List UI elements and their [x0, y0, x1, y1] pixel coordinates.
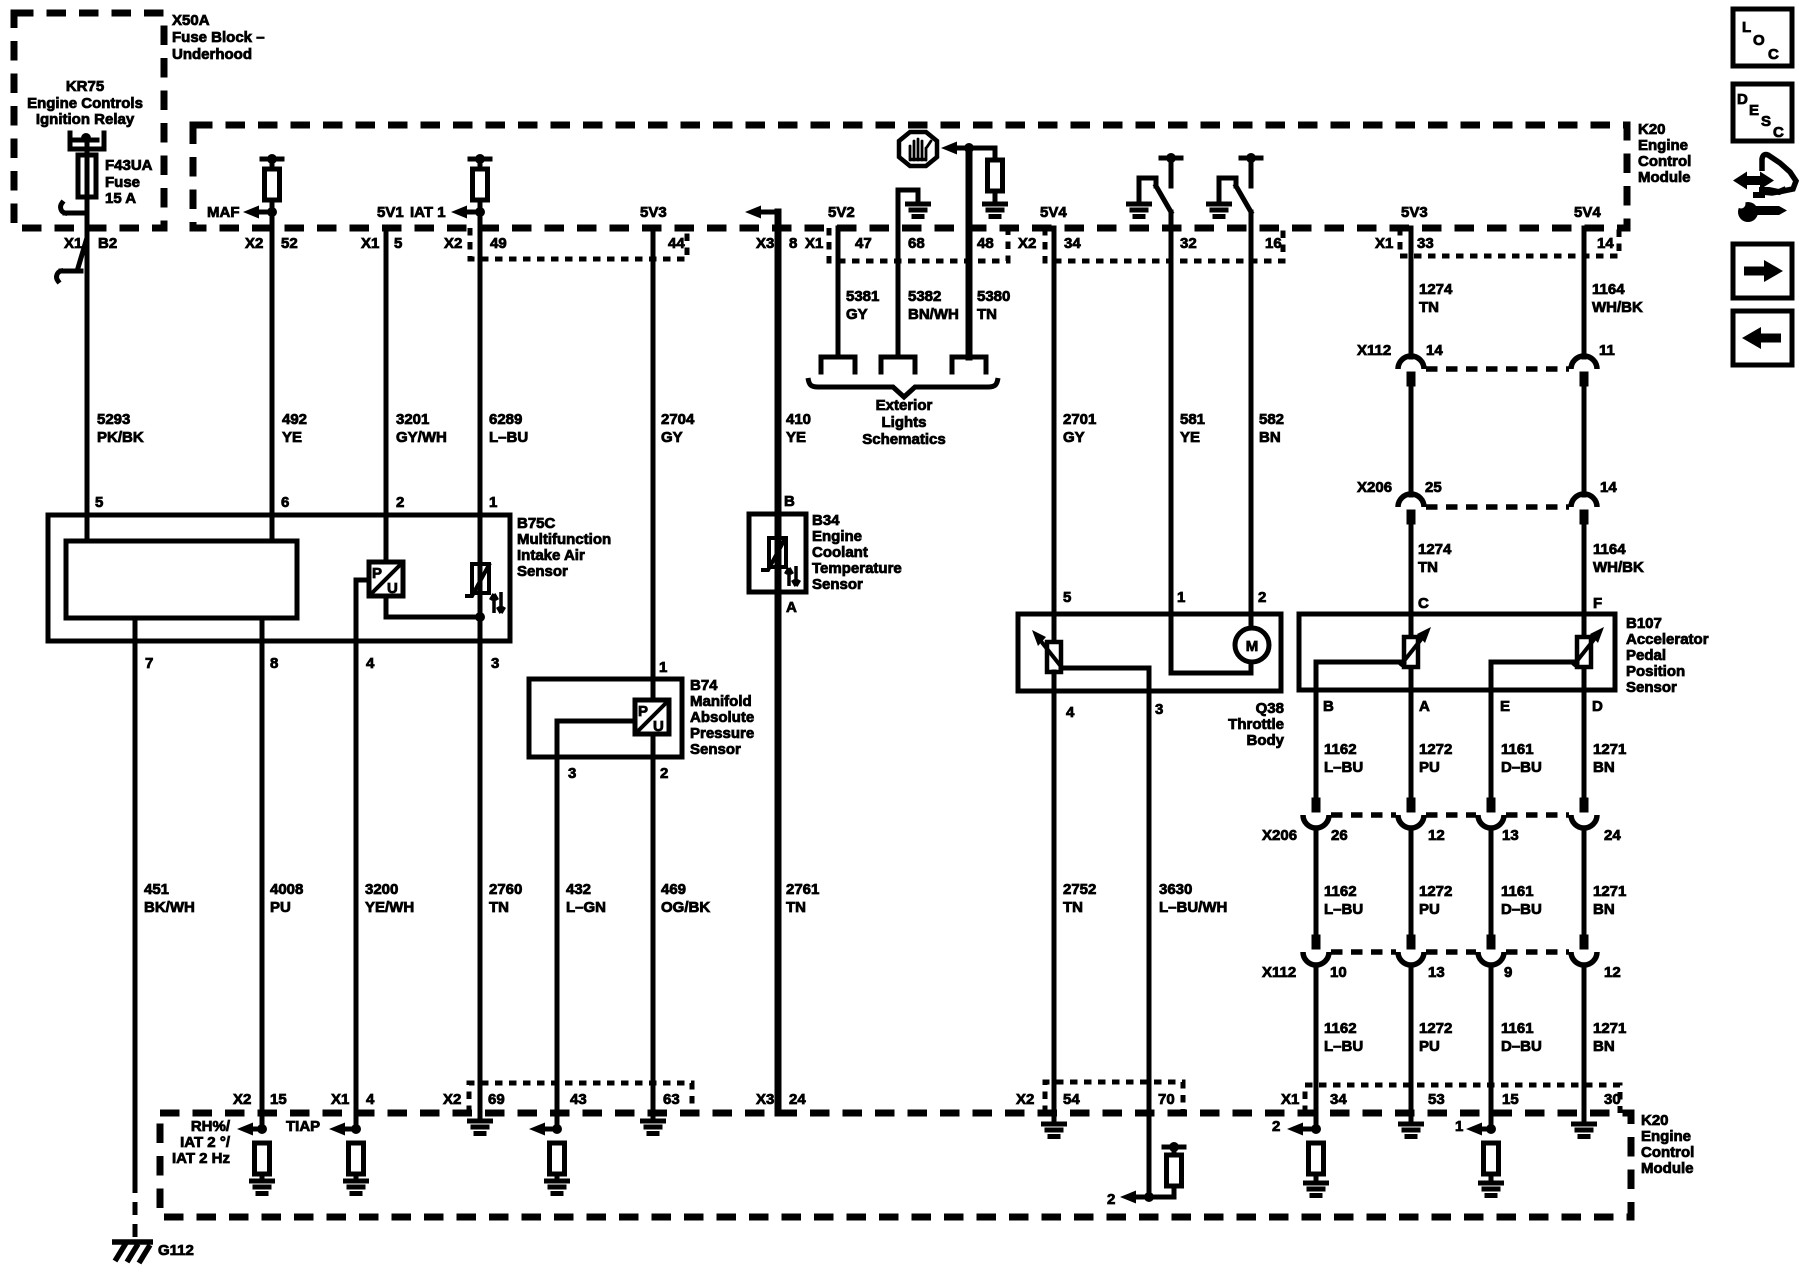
terminal label X3 24 bottom: [756, 1091, 806, 1108]
ECM ground wire 1272: [1401, 1124, 1422, 1137]
svg-text:24: 24: [1604, 827, 1621, 844]
svg-text:4: 4: [366, 655, 375, 672]
svg-text:X2: X2: [444, 235, 462, 252]
svg-text:Module: Module: [1641, 1160, 1694, 1177]
ECM ground wire 1271: [1574, 1124, 1595, 1137]
dotted connector box pins 54-70: [1045, 1082, 1183, 1113]
svg-text:1: 1: [489, 494, 497, 511]
exterior lights connector bracket 68: [881, 357, 915, 372]
connector X112 pin 10: [1303, 935, 1329, 966]
ECM ground wire 2760: [470, 1121, 491, 1134]
svg-text:Body: Body: [1247, 732, 1285, 749]
svg-text:X206: X206: [1262, 827, 1297, 844]
svg-text:1: 1: [1455, 1118, 1463, 1135]
svg-text:5V4: 5V4: [1574, 204, 1601, 221]
label X206 25 14: [1357, 479, 1617, 496]
svg-text:1161: 1161: [1501, 741, 1534, 758]
svg-text:TIAP: TIAP: [286, 1118, 320, 1135]
pullup resistor on IAT 1 signal: [470, 154, 490, 212]
svg-text:L–BU: L–BU: [1324, 759, 1363, 776]
svg-text:Sensor: Sensor: [517, 563, 568, 580]
svg-text:WH/BK: WH/BK: [1592, 299, 1643, 316]
svg-text:GY: GY: [1063, 429, 1085, 446]
svg-text:Control: Control: [1641, 1144, 1694, 1161]
switch to ground on wire 582: [1209, 153, 1262, 217]
svg-text:YE/WH: YE/WH: [365, 899, 414, 916]
wire label 1162 L-BU row1: [1324, 741, 1363, 776]
svg-text:X112: X112: [1357, 342, 1391, 359]
wire label 5293 PK/BK: [97, 411, 144, 446]
wire 1164 WH/BK pin 14 to B107 pin F: [1582, 228, 1587, 614]
terminal label X2 52: [245, 235, 298, 252]
svg-text:Temperature: Temperature: [812, 560, 902, 577]
ECM load resistor wire 1162: [1306, 1143, 1327, 1196]
svg-text:48: 48: [977, 235, 994, 252]
wire label 3201 GY/WH: [396, 411, 447, 446]
svg-text:Multifunction: Multifunction: [517, 531, 611, 548]
svg-text:X1: X1: [1375, 235, 1393, 252]
svg-text:3: 3: [568, 765, 576, 782]
svg-text:X50A: X50A: [172, 12, 210, 29]
ECM K20 bottom box: [160, 1112, 1694, 1217]
svg-text:53: 53: [1428, 1091, 1445, 1108]
svg-text:2752: 2752: [1063, 881, 1096, 898]
svg-text:L–GN: L–GN: [566, 899, 606, 916]
wire label 1271 BN row2: [1593, 883, 1626, 918]
wire 410 YE pin 8 to B34 pin B: [775, 212, 782, 514]
relay KR75 contact: [70, 133, 104, 149]
svg-text:IAT 1: IAT 1: [410, 204, 446, 221]
svg-text:M: M: [1246, 638, 1259, 655]
dotted connector box pins 34-53-15-30: [1305, 1085, 1620, 1113]
wire 582 BN pin 16 to Q38 pin 2 motor: [1249, 212, 1254, 628]
svg-text:B: B: [784, 493, 795, 510]
ECM load resistor wire 432: [547, 1143, 568, 1194]
dotted connector box pins 34-32-16: [1045, 228, 1283, 261]
svg-text:16: 16: [1265, 235, 1282, 252]
wire label 3630 L-BU/WH: [1159, 881, 1227, 916]
svg-text:43: 43: [570, 1091, 587, 1108]
svg-text:3: 3: [1155, 701, 1163, 718]
wire label 1271 BN row3: [1593, 1020, 1626, 1055]
wire 1271 BN from B107 pin D: [1582, 690, 1587, 1121]
svg-text:1272: 1272: [1419, 883, 1452, 900]
svg-text:4008: 4008: [270, 881, 303, 898]
svg-text:PU: PU: [1419, 901, 1440, 918]
connector X112 row link dashed: [1331, 949, 1569, 955]
svg-text:44: 44: [668, 235, 685, 252]
svg-text:Schematics: Schematics: [862, 431, 945, 448]
wire 2761 TN from B34 pin A: [775, 592, 782, 1113]
sensor B107 box: [1299, 614, 1709, 696]
B75C IAT thermistor: [465, 515, 490, 622]
svg-text:K20: K20: [1641, 1112, 1669, 1129]
svg-text:G112: G112: [158, 1242, 194, 1259]
svg-text:YE: YE: [282, 429, 302, 446]
svg-text:Lights: Lights: [882, 414, 927, 431]
svg-text:5V3: 5V3: [1401, 204, 1428, 221]
svg-text:12: 12: [1604, 964, 1621, 981]
svg-text:GY: GY: [661, 429, 683, 446]
svg-text:5293: 5293: [97, 411, 130, 428]
wire 432 L-GN from B74 pin 3: [555, 721, 560, 1129]
svg-text:6: 6: [281, 494, 289, 511]
svg-text:Pedal: Pedal: [1626, 647, 1666, 664]
wire label 2761 TN: [786, 881, 819, 916]
svg-text:Manifold: Manifold: [690, 693, 752, 710]
B107 APP sensor 1 potentiometer: [1316, 614, 1431, 690]
terminal label X2 34: [1018, 235, 1081, 252]
svg-text:GY: GY: [846, 306, 868, 323]
sensor B75C box: [48, 515, 611, 641]
svg-text:L–BU: L–BU: [489, 429, 528, 446]
svg-text:4: 4: [366, 1091, 375, 1108]
svg-text:5V2: 5V2: [828, 204, 855, 221]
dotted connector box pins 49-44: [470, 228, 687, 259]
wire 1272 PU from B107 pin A: [1409, 690, 1414, 1121]
connector X206 pin 14: [1571, 494, 1597, 525]
svg-text:1272: 1272: [1419, 1020, 1452, 1037]
svg-text:Fuse Block –: Fuse Block –: [172, 29, 265, 46]
svg-text:3201: 3201: [396, 411, 429, 428]
svg-text:X1: X1: [1281, 1091, 1299, 1108]
wire label 432 L-GN: [566, 881, 606, 916]
B34 thermistor arrows: [786, 566, 800, 586]
arrow RH% to wire 4008: [237, 1123, 267, 1136]
svg-text:D: D: [1592, 698, 1603, 715]
svg-text:11: 11: [1599, 342, 1615, 359]
svg-text:410: 410: [786, 411, 811, 428]
svg-text:1162: 1162: [1324, 883, 1357, 900]
svg-text:TN: TN: [1418, 559, 1438, 576]
svg-text:5: 5: [95, 494, 103, 511]
arrow 2 on wire 3630: [1107, 1191, 1154, 1209]
svg-text:2701: 2701: [1063, 411, 1096, 428]
svg-text:1162: 1162: [1324, 1020, 1357, 1037]
wire label 2752 TN: [1063, 881, 1096, 916]
svg-text:L–BU: L–BU: [1324, 901, 1363, 918]
ECM ground wire 2752: [1044, 1124, 1065, 1137]
connector X206 pin 24: [1571, 798, 1597, 829]
svg-text:TN: TN: [489, 899, 509, 916]
svg-text:L–BU: L–BU: [1324, 1038, 1363, 1055]
svg-text:B75C: B75C: [517, 515, 556, 532]
wire label 1274 TN upper: [1419, 281, 1453, 316]
svg-text:14: 14: [1600, 479, 1617, 496]
connector X112 pin 12: [1571, 935, 1597, 966]
svg-text:582: 582: [1259, 411, 1284, 428]
svg-text:Exterior: Exterior: [876, 397, 933, 414]
svg-text:49: 49: [490, 235, 507, 252]
svg-text:A: A: [786, 599, 797, 616]
svg-text:BN: BN: [1593, 1038, 1615, 1055]
svg-text:8: 8: [789, 235, 797, 252]
svg-text:14: 14: [1597, 235, 1614, 252]
terminal label X1 47: [805, 235, 872, 252]
svg-text:5V1: 5V1: [377, 204, 404, 221]
svg-text:Module: Module: [1638, 169, 1691, 186]
label exterior lights schematics: [862, 397, 945, 448]
switch blade at X1/B2: [57, 241, 86, 281]
wire label 1161 D-BU row1: [1501, 741, 1542, 776]
svg-text:5382: 5382: [908, 288, 941, 305]
B34 thermistor: [761, 514, 786, 592]
wire 4008 PU from B75C pin 8: [260, 618, 265, 1129]
svg-text:Throttle: Throttle: [1228, 716, 1284, 733]
wire label 492 YE: [282, 411, 307, 446]
dotted connector box pins 47-68-48: [829, 228, 1008, 261]
wire 581 YE pin 32 to Q38 pin 1: [1169, 212, 1174, 673]
svg-text:OG/BK: OG/BK: [661, 899, 710, 916]
svg-text:D: D: [1737, 91, 1748, 108]
wire label 469 OG/BK: [661, 881, 710, 916]
svg-text:Engine: Engine: [1638, 137, 1688, 154]
wire label 5381 GY: [846, 288, 879, 323]
MAF arrow off-page: [207, 204, 277, 221]
svg-text:5: 5: [394, 235, 402, 252]
svg-text:TN: TN: [1063, 899, 1083, 916]
svg-text:Engine: Engine: [1641, 1128, 1691, 1145]
svg-text:BK/WH: BK/WH: [144, 899, 195, 916]
terminal label X1 5: [361, 235, 402, 252]
connector X112 pin 13: [1398, 935, 1424, 966]
wire label 581 YE: [1180, 411, 1205, 446]
svg-text:12: 12: [1428, 827, 1445, 844]
svg-text:Sensor: Sensor: [812, 576, 863, 593]
relay switch hook above X1/B2: [61, 203, 87, 213]
svg-text:5V4: 5V4: [1040, 204, 1067, 221]
svg-text:1164: 1164: [1592, 281, 1625, 298]
svg-text:BN: BN: [1259, 429, 1281, 446]
connector X206 pin 25: [1398, 494, 1424, 525]
svg-text:2761: 2761: [786, 881, 819, 898]
svg-text:D–BU: D–BU: [1501, 1038, 1542, 1055]
svg-text:10: 10: [1330, 964, 1347, 981]
svg-text:C: C: [1418, 595, 1429, 612]
wire 3200 YE/WH from B75C pin 4: [354, 580, 359, 1129]
svg-text:Q38: Q38: [1256, 700, 1284, 717]
svg-text:MAF: MAF: [207, 204, 240, 221]
svg-text:KR75: KR75: [66, 78, 104, 95]
wire label 1161 D-BU row3: [1501, 1020, 1542, 1055]
svg-text:PU: PU: [1419, 1038, 1440, 1055]
svg-text:7: 7: [145, 655, 153, 672]
svg-text:3: 3: [491, 655, 499, 672]
svg-text:BN/WH: BN/WH: [908, 306, 959, 323]
wire label 1272 PU row1: [1419, 741, 1452, 776]
svg-text:14: 14: [1426, 342, 1443, 359]
svg-text:5381: 5381: [846, 288, 879, 305]
svg-text:B107: B107: [1626, 615, 1662, 632]
icon box arrow right: [1733, 244, 1792, 298]
svg-text:F43UA: F43UA: [105, 157, 153, 174]
icon box arrow left: [1733, 311, 1792, 365]
svg-text:2760: 2760: [489, 881, 522, 898]
svg-text:1272: 1272: [1419, 741, 1452, 758]
svg-text:PU: PU: [270, 899, 291, 916]
wire 2704 GY pin 44 to B74 pin 1: [651, 228, 656, 700]
ground G112: [112, 1242, 194, 1263]
fuse F43UA: [78, 155, 153, 207]
octagon hand warning symbol: [899, 132, 937, 166]
wire 5380 TN to exterior lights: [966, 148, 973, 357]
terminal label X2 15 bottom: [233, 1091, 287, 1108]
B75C MAF element box: [66, 515, 297, 643]
wire label 2704 GY: [661, 411, 695, 446]
svg-text:Accelerator: Accelerator: [1626, 631, 1709, 648]
switch to ground on wire 581: [1129, 153, 1182, 217]
svg-text:15: 15: [270, 1091, 287, 1108]
label X206 26 12 13 24: [1262, 827, 1621, 844]
pullup resistor on MAF signal: [262, 154, 282, 212]
svg-text:X2: X2: [245, 235, 263, 252]
svg-text:26: 26: [1331, 827, 1348, 844]
connector X206 pin 12: [1398, 798, 1424, 829]
exterior lights connector bracket 47: [821, 357, 855, 372]
label X112 10 13 9 12: [1262, 964, 1621, 981]
wire label 410 YE: [786, 411, 811, 446]
wire 469 OG/BK from B74 pin 2: [651, 734, 656, 1119]
ECM load resistor wire 3200: [346, 1143, 367, 1194]
wire 1162 L-BU from B107 pin B: [1314, 662, 1319, 1129]
svg-text:C: C: [1768, 46, 1779, 63]
svg-text:1161: 1161: [1501, 883, 1534, 900]
ECM load resistor wire 4008: [252, 1143, 273, 1194]
svg-text:IAT 2 Hz: IAT 2 Hz: [172, 1150, 230, 1167]
svg-text:6289: 6289: [489, 411, 522, 428]
svg-text:Engine Controls: Engine Controls: [27, 95, 143, 112]
wire 3630 L-BU/WH from Q38 pin 3: [1147, 668, 1152, 1197]
svg-text:D–BU: D–BU: [1501, 759, 1542, 776]
Q38 throttle motor M: [1171, 628, 1269, 673]
svg-text:BN: BN: [1593, 901, 1615, 918]
wire 2752 TN from Q38 pin 4: [1052, 672, 1057, 1121]
wire label 1272 PU row3: [1419, 1020, 1452, 1055]
svg-text:PK/BK: PK/BK: [97, 429, 144, 446]
terminal label X2 69 bottom: [443, 1091, 505, 1108]
terminal label X2 49: [444, 235, 507, 252]
svg-text:63: 63: [663, 1091, 680, 1108]
svg-text:Position: Position: [1626, 663, 1685, 680]
svg-text:X3: X3: [756, 235, 774, 252]
svg-text:F: F: [1593, 595, 1602, 612]
ECM load resistor wire 1161: [1481, 1143, 1502, 1196]
svg-text:Engine: Engine: [812, 528, 862, 545]
icon box DESC: [1733, 84, 1792, 141]
connector label X1 B2: [64, 235, 117, 252]
svg-text:TN: TN: [1419, 299, 1439, 316]
svg-text:33: 33: [1417, 235, 1434, 252]
svg-text:581: 581: [1180, 411, 1205, 428]
wire 2701 GY pin 34 to Q38 pin 5: [1052, 228, 1057, 642]
terminal label X3 8: [756, 235, 797, 252]
svg-text:3630: 3630: [1159, 881, 1192, 898]
svg-text:13: 13: [1428, 964, 1445, 981]
wire 1274 TN pin 33 to B107 pin C: [1409, 228, 1414, 614]
wire 6289 L-BU pin 49 to B75C pin 1: [478, 200, 483, 515]
terminal label X1 4 bottom: [331, 1091, 375, 1108]
wire label 1161 D-BU row2: [1501, 883, 1542, 918]
svg-text:B74: B74: [690, 677, 718, 694]
svg-text:69: 69: [488, 1091, 505, 1108]
svg-text:2704: 2704: [661, 411, 695, 428]
dotted connector box pins 33-14: [1400, 228, 1619, 256]
exterior lights connector bracket 48: [952, 357, 986, 372]
wire label 1272 PU row2: [1419, 883, 1452, 918]
svg-text:X2: X2: [233, 1091, 251, 1108]
svg-text:TN: TN: [977, 306, 997, 323]
wire label 3200 YE/WH: [365, 881, 414, 916]
fuse block X50A box: [14, 12, 265, 228]
arrow off-page at pin 8: [745, 206, 778, 219]
svg-text:492: 492: [282, 411, 307, 428]
terminal label X1 34 bottom: [1281, 1091, 1347, 1108]
svg-text:E: E: [1500, 698, 1510, 715]
svg-text:2: 2: [1272, 1118, 1280, 1135]
wire label 1271 BN row1: [1593, 741, 1626, 776]
svg-text:Sensor: Sensor: [690, 741, 741, 758]
svg-text:1271: 1271: [1593, 883, 1626, 900]
svg-text:2: 2: [660, 765, 668, 782]
svg-text:X1: X1: [361, 235, 379, 252]
arrow into octagon from wire 5380: [941, 142, 995, 155]
RH IAT output label: [172, 1118, 231, 1167]
Q38 TP sensor potentiometer: [1032, 630, 1149, 672]
terminal label X1 33: [1375, 235, 1434, 252]
icon box LOC: [1733, 9, 1792, 66]
svg-text:1271: 1271: [1593, 741, 1626, 758]
svg-text:E: E: [1749, 102, 1759, 119]
svg-text:P: P: [638, 703, 648, 720]
connector X206 pin 26: [1303, 798, 1329, 829]
B75C thermistor arrows: [491, 592, 505, 613]
wire label 5382 BN/WH: [908, 288, 959, 323]
TIAP arrow to wire 3200: [286, 1118, 361, 1136]
svg-text:B: B: [1323, 698, 1334, 715]
svg-text:WH/BK: WH/BK: [1593, 559, 1644, 576]
svg-text:25: 25: [1425, 479, 1442, 496]
svg-text:2: 2: [396, 494, 404, 511]
svg-text:X2: X2: [1016, 1091, 1034, 1108]
pulldown resistor to ground inside ECM: [985, 148, 1006, 217]
B107 APP sensor 2 potentiometer: [1491, 614, 1604, 690]
svg-text:B34: B34: [812, 512, 840, 529]
B75C IAT P/U converter: [356, 562, 480, 617]
svg-text:1161: 1161: [1501, 1020, 1534, 1037]
sensor B74 box: [529, 677, 754, 758]
svg-text:D–BU: D–BU: [1501, 901, 1542, 918]
wire label 4008 PU: [270, 881, 303, 916]
svg-text:X2: X2: [1018, 235, 1036, 252]
ECM pullup resistor wire 3630: [1149, 1142, 1184, 1197]
svg-text:5V3: 5V3: [640, 204, 667, 221]
icon adjust hand tool: [1733, 155, 1796, 223]
label X112 14 11: [1357, 342, 1615, 359]
svg-text:30: 30: [1604, 1091, 1621, 1108]
svg-text:X2: X2: [443, 1091, 461, 1108]
svg-text:PU: PU: [1419, 759, 1440, 776]
B74 P/U converter: [557, 700, 669, 735]
relay KR75 label: [27, 78, 143, 128]
svg-text:1: 1: [1177, 589, 1185, 606]
svg-text:15: 15: [1502, 1091, 1519, 1108]
svg-text:5380: 5380: [977, 288, 1010, 305]
svg-text:S: S: [1761, 113, 1771, 130]
sensor B34 box: [749, 512, 902, 593]
svg-text:L–BU/WH: L–BU/WH: [1159, 899, 1227, 916]
svg-text:432: 432: [566, 881, 591, 898]
svg-text:68: 68: [908, 235, 925, 252]
